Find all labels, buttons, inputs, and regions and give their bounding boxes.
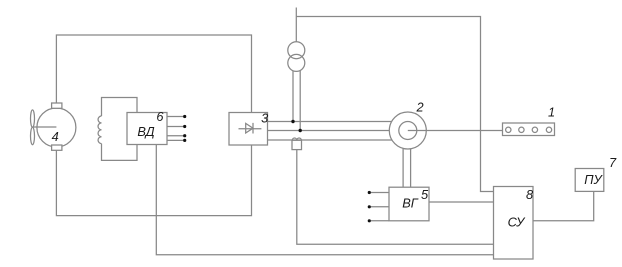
wire armature loop top: motor top to rectifier 3 top — [56, 35, 251, 113]
generator 2 outer circle — [389, 112, 426, 149]
diode symbol inside 3 — [239, 123, 262, 134]
block VD (6) — [127, 113, 167, 145]
block PU (7) — [575, 169, 604, 192]
propeller blades — [31, 110, 35, 127]
junction node on phase wire 2 — [299, 129, 302, 132]
motor 4 circle — [37, 108, 76, 147]
wire armature loop bottom: motor bottom to rectifier 3 bottom — [56, 145, 251, 216]
wire VD box bottom down to control unit SU — [156, 145, 493, 255]
svg-text:6: 6 — [156, 109, 164, 124]
terminal block 1 — [503, 123, 555, 136]
VG input terminal stubs — [371, 193, 389, 221]
wire SU to PU — [533, 191, 594, 220]
field winding frame with coil (excitation winding of motor 4) — [102, 98, 138, 161]
svg-text:5: 5 — [421, 187, 429, 202]
svg-text:7: 7 — [609, 155, 617, 170]
transformer T1 lower leads — [293, 71, 300, 131]
block SU (8) — [494, 187, 534, 260]
VD output terminal stubs — [167, 117, 183, 141]
transformer T1 upper lead — [295, 8, 297, 42]
svg-text:СУ: СУ — [508, 215, 527, 230]
VD terminal dots — [183, 115, 186, 118]
generator 2 inner circle — [399, 122, 417, 140]
svg-text:1: 1 — [548, 105, 555, 120]
svg-text:ВГ: ВГ — [402, 196, 419, 211]
plug connector X2 on bottom phase wire — [292, 140, 302, 149]
svg-text:2: 2 — [415, 100, 423, 115]
transformer T1 circles — [288, 42, 305, 59]
svg-text:ВД: ВД — [137, 124, 154, 139]
motor 4 shaft — [33, 126, 57, 128]
svg-text:ПУ: ПУ — [584, 172, 603, 187]
wires generator 2 down to VG — [403, 140, 411, 187]
VG terminal dots — [368, 191, 371, 194]
wire plug X2 down to SU — [297, 150, 494, 245]
svg-text:3: 3 — [261, 111, 268, 126]
rectifier 3 box — [229, 113, 268, 146]
three-phase wires rectifier 3 to generator 2 — [268, 122, 396, 141]
coil L1 (4 arcs) — [98, 116, 101, 144]
wire VG to SU — [429, 201, 494, 203]
junction node on phase wire 1 — [291, 120, 294, 123]
wire generator 2 to connector 1 — [408, 130, 503, 132]
svg-text:8: 8 — [526, 187, 534, 202]
motor 4 brushes — [52, 103, 62, 108]
block VG (5) — [389, 187, 429, 221]
wire top feedback line to SU — [296, 17, 493, 192]
svg-text:4: 4 — [52, 129, 59, 144]
